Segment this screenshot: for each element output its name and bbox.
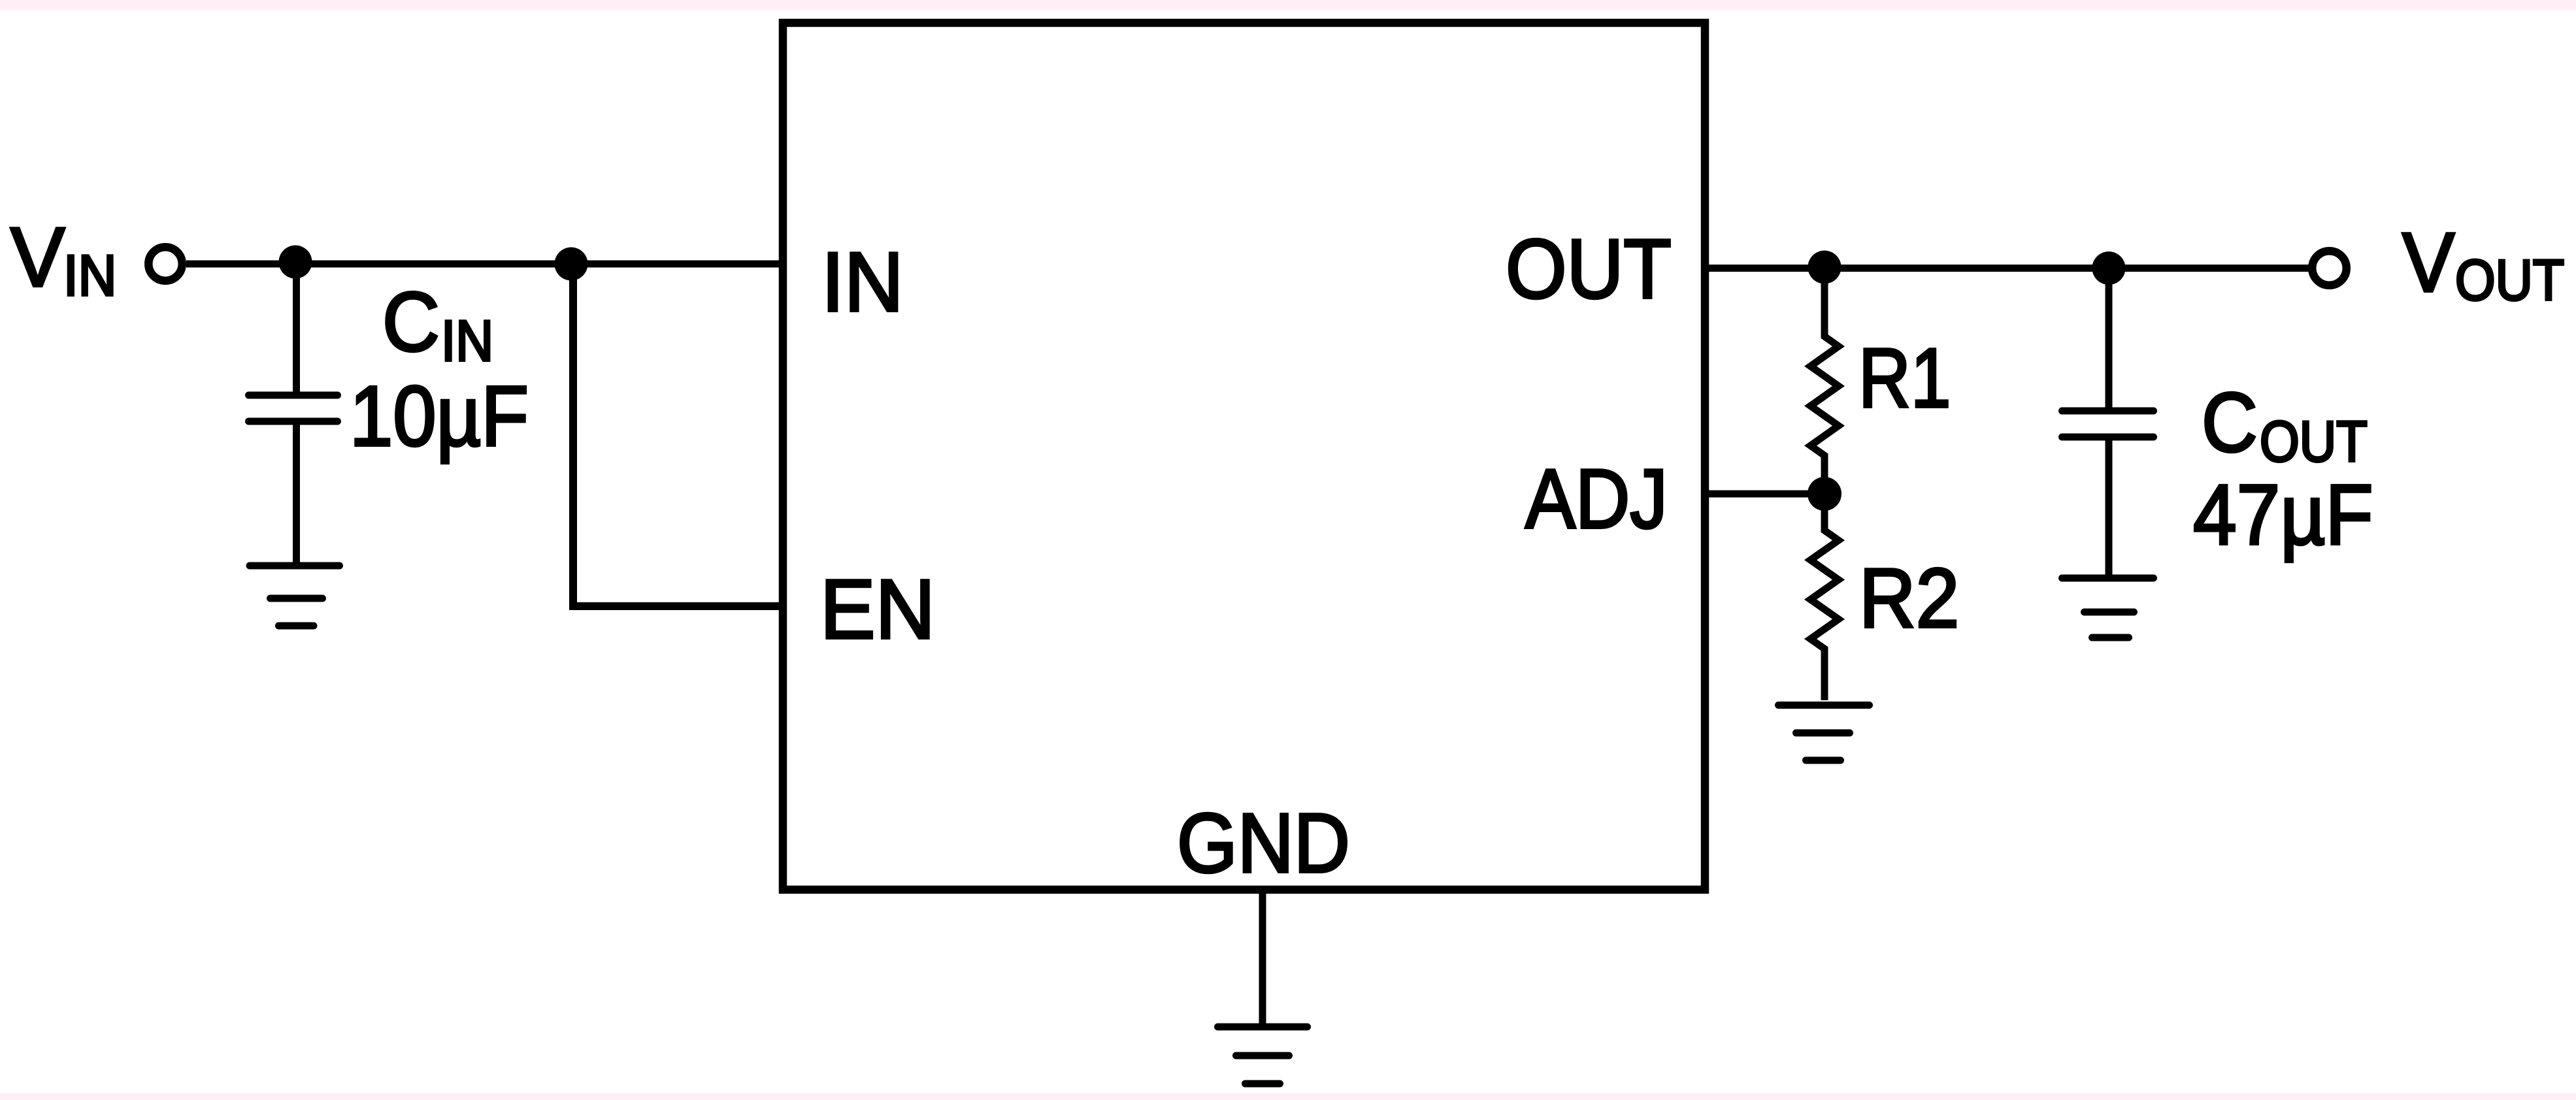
- svg-text:IN: IN: [821, 235, 904, 329]
- resistor R2 label: [1859, 551, 1959, 645]
- terminal VIN open circle: [148, 247, 182, 281]
- junction COUT node: [2092, 251, 2126, 285]
- wire ADJ pin to divider: [1709, 491, 1825, 498]
- capacitor C_IN plates: [249, 395, 338, 421]
- resistor R1 label: [1858, 331, 1951, 425]
- svg-text:R2: R2: [1859, 551, 1959, 645]
- junction R1 top node: [1808, 251, 1841, 284]
- node VOUT label: [2402, 216, 2564, 312]
- bottom pink border strip: [0, 1093, 2576, 1100]
- svg-text:OUT: OUT: [1506, 222, 1672, 316]
- top pink border strip: [0, 0, 2576, 10]
- ground symbol at R2: [1779, 705, 1870, 761]
- pin label GND: [1177, 796, 1350, 890]
- pin label IN: [821, 235, 904, 329]
- resistor R1: [1811, 268, 1839, 494]
- pin label ADJ: [1525, 452, 1668, 546]
- capacitor C_OUT plates: [2062, 411, 2154, 437]
- resistor R2: [1811, 494, 1839, 700]
- capacitor C_IN lead bottom: [293, 425, 300, 562]
- wire GND pin to ground: [1259, 894, 1266, 1027]
- regulator IC U1 box: [783, 23, 1705, 890]
- pin label OUT: [1506, 222, 1672, 316]
- capacitor C_IN value 10uF: [350, 368, 529, 464]
- svg-text:C: C: [382, 275, 440, 369]
- capacitor C_OUT lead bottom: [2105, 440, 2113, 575]
- junction CIN node: [279, 246, 312, 279]
- svg-text:V: V: [2402, 216, 2454, 310]
- svg-text:OUT: OUT: [2260, 409, 2368, 474]
- svg-text:V: V: [10, 210, 65, 304]
- ground symbol at GND pin: [1218, 1027, 1308, 1084]
- svg-text:47µF: 47µF: [2193, 466, 2373, 562]
- svg-text:C: C: [2202, 376, 2258, 470]
- ground symbol at C_IN: [250, 566, 340, 626]
- capacitor C_IN label: [382, 275, 493, 373]
- svg-text:IN: IN: [63, 243, 116, 308]
- svg-text:OUT: OUT: [2455, 248, 2564, 312]
- pin label EN: [820, 562, 935, 656]
- ground symbol at C_OUT: [2062, 578, 2154, 638]
- svg-text:GND: GND: [1177, 796, 1350, 890]
- capacitor C_OUT lead top: [2105, 268, 2113, 408]
- svg-text:EN: EN: [820, 562, 935, 656]
- wire VIN to IN pin: [186, 261, 779, 268]
- svg-text:R1: R1: [1858, 331, 1951, 425]
- wire OUT pin to VOUT: [1709, 265, 2309, 272]
- capacitor C_OUT value 47uF: [2193, 466, 2373, 562]
- capacitor C_OUT label: [2202, 376, 2368, 474]
- terminal VOUT open circle: [2312, 251, 2347, 285]
- svg-text:IN: IN: [441, 308, 493, 373]
- junction ADJ node: [1808, 477, 1841, 511]
- node VIN label: [10, 210, 116, 308]
- junction EN tap node: [555, 248, 588, 281]
- wire EN tap down and to EN pin: [573, 264, 779, 606]
- svg-text:10µF: 10µF: [350, 368, 529, 464]
- svg-text:ADJ: ADJ: [1525, 452, 1668, 546]
- capacitor C_IN lead top: [293, 264, 300, 392]
